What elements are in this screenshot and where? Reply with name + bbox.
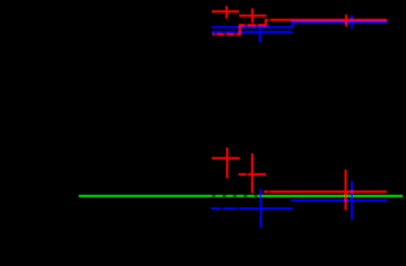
bottom pad: green reference line at ratio=1	[79, 195, 403, 197]
top pad: black dashed overlay notches on red L2/L3	[245, 19, 271, 27]
top pad: blue data point 2 vertical error bar	[351, 15, 353, 28]
top pad: red data point 3 vertical error bar	[345, 15, 347, 27]
top pad: black dashed overlay notches on blue lower line	[222, 31, 237, 34]
top pad: blue lower line (second blue histogram level / error band)	[212, 31, 293, 33]
bottom pad: red ratio point C	[264, 170, 387, 211]
top pad: black dashed overlay notches on red L1	[214, 33, 237, 36]
bottom pad: black dash notch on red B bar	[246, 173, 249, 176]
bottom pad: red ratio point B	[238, 153, 266, 193]
bottom pad: dark notches on green line (black dashed overlay)	[212, 195, 258, 198]
top pad: blue data point 1 vertical error bar	[259, 26, 261, 42]
bottom pad: black dash notches on blue 1 bar	[220, 207, 239, 210]
top pad: blue step histogram	[212, 22, 387, 27]
bottom pad: blue ratio point 2	[291, 181, 387, 220]
top pad: red data point 2	[239, 8, 266, 23]
bottom pad: blue ratio point 1	[211, 189, 293, 228]
bottom pad: red ratio point A	[212, 148, 240, 179]
bottom pad: black dash notch on red C bar	[268, 190, 270, 193]
top pad: red data point 1	[212, 6, 239, 19]
top pad: red step histogram	[212, 20, 387, 35]
